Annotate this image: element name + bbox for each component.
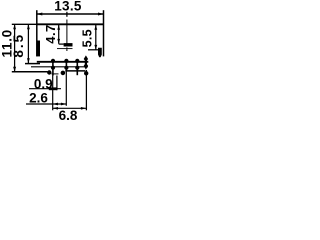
body top edge	[37, 23, 104, 25]
arrow top 5.5	[94, 25, 97, 30]
center line stub below block	[66, 47, 68, 51]
svg-text:4.7: 4.7	[43, 24, 58, 44]
svg-text:2.6: 2.6	[29, 91, 48, 106]
center line mid	[66, 20, 68, 44]
lower thin line	[31, 66, 88, 68]
pin 1 extension	[52, 76, 54, 111]
dimension line 0.9	[29, 88, 61, 90]
arrow 2.6 left	[53, 103, 59, 106]
solder dot 2	[61, 71, 66, 76]
rivet dots row 2	[51, 66, 55, 70]
arrow bottom 4.7	[57, 39, 60, 44]
arrow bottom 8.5	[27, 58, 30, 63]
pin 1	[52, 60, 54, 76]
arrow top 8.5	[27, 24, 30, 29]
svg-text:5.5: 5.5	[81, 29, 95, 47]
arrow 2.6 right	[61, 103, 66, 106]
arrow top 4.7	[57, 25, 60, 30]
solder dot 1	[47, 70, 51, 74]
extension line top-left	[12, 23, 37, 25]
dimension line 6.8	[53, 107, 87, 109]
svg-text:13.5: 13.5	[54, 0, 82, 13]
body bottom line	[37, 61, 89, 63]
arrow left 13.5	[37, 13, 43, 16]
extension 0.9 right	[56, 76, 58, 91]
feature line right	[88, 49, 99, 51]
seating line	[12, 71, 48, 73]
extension line right (body right edge)	[103, 10, 105, 56]
seating line right segment	[65, 70, 85, 72]
thin line under block	[57, 48, 73, 50]
arrow bottom 5.5	[94, 45, 97, 50]
extension line left (body left edge)	[36, 10, 38, 56]
arrow bottom 11.0	[13, 67, 16, 72]
svg-text:6.8: 6.8	[59, 108, 78, 123]
dimension line 11.0	[14, 24, 16, 71]
dimension line 8.5	[27, 24, 29, 63]
pin 2 extension	[65, 72, 67, 106]
feature line at 4.7	[59, 43, 64, 45]
arrow right 13.5	[98, 13, 104, 16]
pin1 foot line	[52, 73, 59, 75]
extension 6.8 right	[85, 70, 87, 110]
rivet dots row 1	[51, 59, 55, 63]
dimension line 13.5	[37, 13, 104, 15]
pin 3	[76, 60, 78, 75]
arrow 6.8 left	[53, 107, 59, 110]
left side black bar	[37, 41, 41, 57]
solder dot 3	[84, 71, 88, 75]
black side pin	[84, 55, 88, 69]
arrow 0.9 left	[49, 87, 57, 90]
dimension line 2.6	[26, 103, 66, 105]
dimension line 5.5	[95, 24, 97, 50]
arrow 6.8 right	[81, 107, 87, 110]
dimension line 4.7	[58, 24, 60, 44]
svg-text:8.5: 8.5	[11, 33, 26, 58]
arrow top 11.0	[13, 24, 16, 29]
pin 2	[65, 60, 67, 72]
center line top tick	[66, 12, 68, 17]
right side black bar	[98, 48, 102, 58]
seat line 8.5 reference	[25, 63, 40, 65]
center black block	[64, 43, 73, 46]
